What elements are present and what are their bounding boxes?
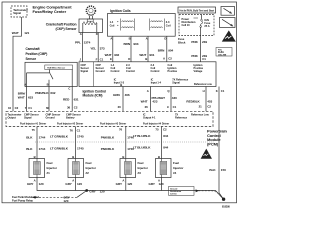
svg-text:D: D [164, 37, 166, 41]
svg-text:GRY: GRY [149, 182, 156, 186]
svg-text:Signal: Signal [81, 69, 89, 73]
svg-text:LT BLU/BLK: LT BLU/BLK [133, 134, 151, 138]
svg-text:239: 239 [202, 40, 207, 44]
svg-text:25 A: 25 A [204, 24, 209, 28]
svg-text:60: 60 [46, 106, 50, 110]
svg-text:J: J [79, 57, 81, 61]
svg-text:Fuse/Relay Center: Fuse/Relay Center [33, 9, 67, 14]
svg-text:Output 4-1: Output 4-1 [143, 115, 156, 119]
svg-text:D: D [96, 32, 98, 36]
svg-text:WHT: WHT [12, 31, 19, 35]
svg-text:Ignition Coils: Ignition Coils [110, 9, 131, 13]
svg-text:B: B [34, 155, 36, 159]
svg-text:A: A [110, 37, 112, 41]
svg-text:A: A [34, 178, 36, 182]
svg-text:A: A [146, 37, 148, 41]
svg-text:Camshaft: Camshaft [26, 47, 41, 51]
svg-text:Input 1-4: Input 1-4 [151, 81, 162, 85]
svg-text:RED/BLK: RED/BLK [186, 100, 200, 104]
svg-text:B: B [47, 83, 49, 87]
svg-text:BLK: BLK [209, 168, 216, 172]
svg-text:Control: Control [126, 69, 135, 73]
svg-text:A: A [147, 89, 149, 93]
svg-text:C2: C2 [207, 105, 211, 109]
svg-text:1744: 1744 [39, 135, 46, 139]
svg-text:Injector: Injector [86, 166, 97, 170]
svg-text:903: 903 [133, 42, 138, 46]
svg-text:WHT: WHT [18, 96, 25, 100]
svg-text:A: A [80, 32, 82, 36]
svg-text:901: 901 [149, 53, 154, 57]
svg-text:Fuel Tank Module and: Fuel Tank Module and [12, 195, 39, 199]
svg-text:20: 20 [118, 105, 122, 109]
svg-text:B: B [145, 57, 147, 61]
svg-text:Voltage: Voltage [194, 69, 203, 73]
svg-text:LT GRN/BLK: LT GRN/BLK [50, 146, 69, 150]
svg-text:844: 844 [163, 134, 168, 138]
svg-text:1744: 1744 [39, 147, 46, 151]
svg-text:Battery: Battery [66, 115, 75, 119]
svg-text:Fuel Injector #1 Driver: Fuel Injector #1 Driver [20, 121, 46, 125]
svg-text:Position (CMP): Position (CMP) [26, 52, 48, 56]
svg-text:C1: C1 [221, 89, 225, 93]
svg-text:Ground: Ground [46, 115, 56, 119]
svg-text:120: 120 [127, 182, 132, 186]
svg-text:Cell 14: Cell 14 [170, 192, 177, 195]
svg-text:902: 902 [114, 53, 119, 57]
svg-text:K: K [216, 89, 218, 93]
svg-text:76: 76 [70, 129, 74, 133]
svg-text:Positive: Positive [168, 69, 178, 73]
svg-text:#4: #4 [173, 171, 177, 175]
svg-text:C1: C1 [100, 57, 104, 61]
svg-text:#2: #2 [86, 171, 90, 175]
svg-text:PNK/BLK: PNK/BLK [35, 91, 49, 95]
svg-text:#1: #1 [47, 171, 51, 175]
svg-text:LT BLU/BLK: LT BLU/BLK [133, 146, 151, 150]
svg-text:Control: Control [151, 69, 160, 73]
svg-text:Crankshaft Position: Crankshaft Position [46, 22, 77, 26]
svg-text:453: 453 [207, 100, 212, 104]
svg-text:BRN: BRN [158, 49, 165, 53]
svg-text:844: 844 [163, 146, 168, 150]
svg-text:D-8A: D-8A [218, 50, 224, 54]
svg-text:(PCM): (PCM) [207, 142, 219, 147]
svg-text:75: 75 [155, 128, 159, 132]
svg-text:Control: Control [111, 69, 120, 73]
svg-text:818298: 818298 [222, 206, 230, 209]
svg-text:A: A [163, 57, 166, 61]
svg-text:Signal: Signal [172, 81, 180, 85]
svg-text:A: A [24, 83, 26, 87]
svg-text:C2: C2 [74, 105, 78, 109]
svg-text:Block: Block [178, 41, 186, 45]
svg-text:Fuel: Fuel [47, 161, 53, 165]
svg-text:26: 26 [145, 105, 149, 109]
svg-text:B: B [158, 155, 160, 159]
svg-text:B: B [129, 37, 131, 41]
svg-text:631: 631 [74, 97, 79, 101]
svg-text:Module (ICM): Module (ICM) [83, 94, 103, 98]
svg-text:121: 121 [24, 31, 29, 35]
svg-text:1374: 1374 [84, 41, 91, 45]
svg-text:C: C [68, 86, 70, 90]
svg-text:Q: Q [167, 89, 170, 93]
svg-text:GRN: GRN [113, 93, 121, 97]
svg-text:Reference Low: Reference Low [191, 112, 210, 116]
svg-text:C2: C2 [163, 128, 167, 132]
svg-text:D: D [128, 57, 130, 61]
svg-text:BLK: BLK [26, 135, 33, 139]
svg-text:B: B [72, 155, 74, 159]
svg-text:C1: C1 [77, 129, 81, 133]
svg-text:Fuel Pump Relay: Fuel Pump Relay [12, 198, 33, 202]
svg-text:Fuel Injector #4 Driver: Fuel Injector #4 Driver [143, 121, 169, 125]
svg-text:H: H [203, 89, 205, 93]
svg-text:1745: 1745 [77, 135, 84, 139]
svg-text:120: 120 [77, 182, 82, 186]
svg-text:406: 406 [125, 93, 130, 97]
svg-text:150: 150 [221, 168, 226, 172]
svg-text:Reference: Reference [175, 115, 188, 119]
svg-text:(CKP) Sensor: (CKP) Sensor [55, 27, 77, 31]
svg-text:Injector: Injector [138, 166, 149, 170]
svg-text:C1: C1 [28, 106, 32, 110]
svg-text:10: 10 [8, 106, 12, 110]
svg-text:Fuel Injector #2 Driver: Fuel Injector #2 Driver [57, 121, 83, 125]
svg-text:PNK: PNK [191, 54, 198, 58]
svg-text:1745: 1745 [77, 146, 84, 150]
svg-text:21: 21 [199, 105, 203, 109]
svg-text:632: 632 [50, 91, 55, 95]
svg-text:PNK: PNK [191, 40, 198, 44]
svg-text:F: F [96, 57, 98, 61]
svg-text:75: 75 [32, 128, 36, 132]
svg-text:Cell 10: Cell 10 [182, 23, 191, 27]
svg-text:Fuel: Fuel [173, 161, 179, 165]
svg-text:A: A [72, 178, 74, 182]
svg-text:423: 423 [152, 100, 157, 104]
svg-text:B: B [122, 155, 124, 159]
svg-text:C2: C2 [168, 57, 172, 61]
svg-text:9: 9 [167, 105, 169, 109]
svg-text:Hot In RUN, Bulb Test and Star: Hot In RUN, Bulb Test and Start [180, 9, 215, 12]
svg-text:PNK/BLK: PNK/BLK [101, 135, 115, 139]
svg-text:Coil: Coil [110, 23, 115, 27]
svg-text:Sensor: Sensor [26, 57, 37, 61]
svg-text:Signal: Signal [13, 11, 21, 15]
svg-text:A: A [158, 178, 160, 182]
svg-text:RED: RED [63, 97, 70, 101]
svg-text:633: 633 [28, 96, 33, 100]
svg-text:373: 373 [100, 47, 105, 51]
svg-text:Reference Low: Reference Low [194, 82, 213, 86]
svg-text:LT GRN/BLK: LT GRN/BLK [50, 135, 69, 139]
svg-text:YEL: YEL [90, 47, 96, 51]
svg-text:120: 120 [63, 199, 68, 203]
svg-text:Output: Output [8, 115, 16, 119]
svg-text:Ground: Ground [96, 69, 106, 73]
svg-text:BLK: BLK [26, 147, 33, 151]
svg-text:430: 430 [172, 96, 177, 100]
svg-text:Input 2-3: Input 2-3 [114, 81, 125, 85]
svg-text:C1: C1 [202, 57, 206, 61]
svg-text:Signal: Signal [24, 115, 32, 119]
svg-text:120: 120 [100, 190, 105, 194]
svg-text:A: A [122, 178, 124, 182]
svg-text:Tachometer: Tachometer [13, 8, 28, 12]
svg-text:E: E [110, 57, 112, 61]
svg-text:Hall Effect Sensor: Hall Effect Sensor [47, 66, 65, 69]
svg-text:(34L-8M): (34L-8M) [218, 53, 227, 56]
svg-text:BRN: BRN [124, 42, 131, 46]
svg-text:Injector: Injector [173, 166, 184, 170]
svg-text:C1: C1 [173, 105, 177, 109]
svg-text:36: 36 [67, 105, 71, 109]
svg-text:#3: #3 [138, 171, 142, 175]
svg-text:Coil: Coil [166, 23, 171, 27]
svg-text:76: 76 [119, 128, 123, 132]
svg-text:GRY: GRY [89, 190, 96, 194]
svg-text:Fuel Injector #3 Driver: Fuel Injector #3 Driver [100, 121, 126, 125]
svg-text:PPL: PPL [75, 41, 81, 45]
svg-text:120: 120 [39, 182, 44, 186]
svg-text:Fuel: Fuel [86, 161, 92, 165]
svg-text:WHT: WHT [141, 100, 148, 104]
svg-text:Injector: Injector [47, 166, 58, 170]
svg-text:C2: C2 [15, 106, 19, 110]
svg-text:904: 904 [168, 49, 173, 53]
svg-text:PNK/BLK: PNK/BLK [101, 147, 115, 151]
svg-text:Fuel: Fuel [138, 161, 144, 165]
